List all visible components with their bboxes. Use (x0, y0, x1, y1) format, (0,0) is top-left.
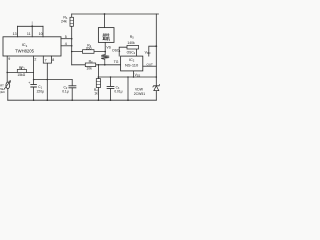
svg-text:10: 10 (39, 32, 43, 36)
svg-text:4: 4 (65, 42, 67, 46)
OUT pin wire (143, 65, 157, 67)
capacitor C3 0.01u (107, 77, 123, 100)
resistor VS zigzag (101, 46, 111, 65)
OSC1 pin wire (119, 47, 127, 56)
junction Vss row drop (127, 76, 129, 78)
svg-text:RP1: RP1 (19, 66, 26, 71)
svg-text:0.1μ: 0.1μ (62, 89, 69, 93)
wire node down to Vss row (97, 65, 99, 79)
svg-text:OSC1: OSC1 (112, 48, 121, 53)
junction VSS row (133, 76, 135, 78)
junction R2 branch (71, 51, 73, 53)
svg-text:9: 9 (8, 57, 10, 61)
OSC2 pin wire (136, 49, 138, 56)
svg-text:TG: TG (114, 60, 119, 64)
svg-text:R3: R3 (89, 59, 93, 64)
wire R2 branch to 809 node (72, 51, 106, 53)
IC U2 NS-110 (121, 56, 143, 71)
svg-text:140k: 140k (127, 41, 135, 45)
junction Vss row right bus (156, 76, 158, 78)
svg-text:15kΩ: 15kΩ (17, 73, 25, 77)
svg-text:VSS: VSS (135, 73, 141, 78)
svg-text:+: + (28, 81, 30, 85)
svg-text:1k: 1k (94, 92, 98, 96)
junction VDD rail (155, 45, 157, 47)
VSS pin wire (133, 71, 135, 77)
wire C2 row (34, 79, 73, 81)
resistor R2 200 (83, 44, 95, 54)
junction pin5 (71, 38, 73, 40)
svg-text:VS: VS (106, 46, 111, 50)
pin 9 wire (6, 56, 8, 82)
svg-text:OUT: OUT (147, 63, 154, 67)
809 earphone box B1 (98, 28, 114, 43)
pin 11 wire (31, 26, 33, 37)
svg-text:2CW51: 2CW51 (134, 92, 145, 96)
junction C3 top (110, 76, 112, 78)
resistor R3 10k (85, 59, 95, 70)
junction RP1 pin9 (6, 72, 8, 74)
potentiometer RP1 15k (7, 66, 33, 77)
wire Vss row (98, 76, 156, 78)
faint stub above junction (31, 22, 33, 27)
thermistor RT sensor (0, 81, 10, 100)
svg-text:TWH8205: TWH8205 (15, 48, 35, 53)
pin 5 wire (61, 38, 72, 40)
capacitor C1 220u (28, 81, 44, 100)
resistor R4 1k (94, 79, 101, 101)
junction VS bottom (104, 64, 106, 66)
svg-text:7: 7 (45, 58, 47, 62)
svg-text:0.01μ: 0.01μ (114, 90, 122, 94)
zener diode VDW 2CW51 (134, 85, 160, 96)
resistor R1 24k (61, 14, 73, 26)
VDD pin wire (149, 46, 157, 56)
svg-text:VDD: VDD (145, 50, 151, 55)
wire rail to 809 box (104, 14, 106, 28)
pin 4 wire (61, 45, 72, 47)
svg-text:2: 2 (34, 58, 36, 62)
svg-text:OSC2: OSC2 (127, 51, 136, 56)
junction C2 row left (33, 79, 35, 81)
pin 13 wire (17, 26, 19, 37)
top supply rail wire (72, 13, 159, 15)
junction R2 to 809 wire (104, 51, 106, 53)
tie bracket wire over pins 13,11,10 (18, 25, 44, 27)
wire Vss row to bus (127, 77, 129, 100)
wire R3 row to TG input (72, 64, 121, 66)
junction pin4 (71, 45, 73, 47)
svg-text:13: 13 (13, 32, 17, 36)
svg-text:10k: 10k (86, 66, 92, 70)
pin 2 wire (33, 56, 35, 84)
svg-text:11: 11 (27, 32, 31, 36)
svg-text:NS-110: NS-110 (125, 62, 139, 67)
svg-text:(EC: (EC (0, 90, 5, 94)
junction pin 11 tie (31, 25, 33, 27)
svg-text:8: 8 (52, 58, 54, 62)
bottom bus wire (8, 99, 157, 101)
svg-text:200: 200 (86, 47, 92, 51)
junction Vss row left (98, 76, 100, 78)
svg-text:220μ: 220μ (37, 90, 45, 94)
junction pins78 crossing (47, 79, 49, 81)
svg-text:耳机: 耳机 (102, 36, 110, 41)
right bus wire (155, 14, 157, 100)
IC U1 TWH8205 (3, 37, 61, 56)
resistor R5 140k (127, 35, 139, 49)
node wire from R1 down past pins 5,4 to R3 row (71, 26, 73, 65)
pin 10 wire (42, 26, 44, 37)
bus junction dots (33, 99, 35, 101)
svg-text:R5: R5 (130, 35, 134, 40)
svg-text:IC1: IC1 (22, 42, 28, 48)
wire 809 box to VS (104, 42, 106, 54)
pins 7,8 tie bracket wire (43, 56, 51, 100)
svg-text:5: 5 (65, 35, 67, 39)
capacitor C2 0.1u (62, 80, 76, 101)
junction R3/R4 node (98, 64, 100, 66)
svg-text:24k: 24k (61, 20, 67, 24)
junction rail 809 (104, 13, 106, 15)
